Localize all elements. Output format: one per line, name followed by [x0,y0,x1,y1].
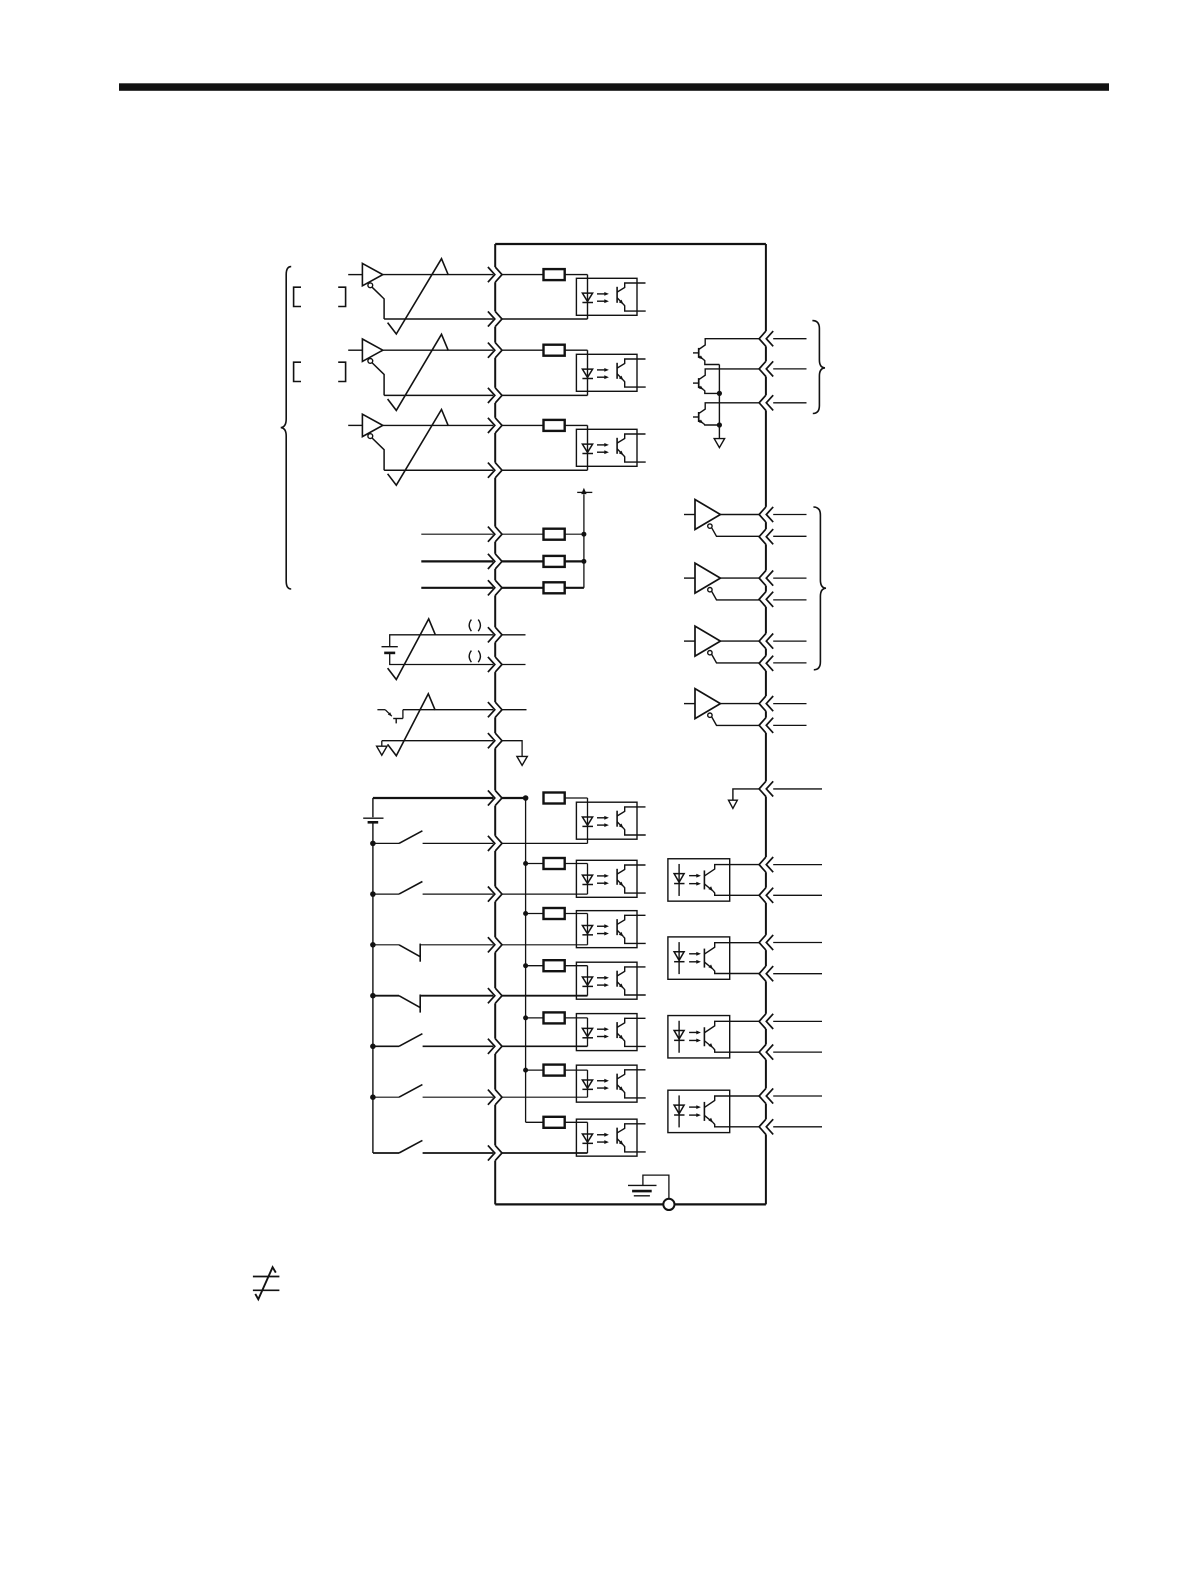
connector CN1 pin chevron row 5 [488,418,502,433]
photocoupler PC14 [668,1090,760,1132]
wire R1 to PC1 anode [565,274,588,276]
wire R3 to PC3 anode [565,424,588,426]
+24V distribution line [525,798,527,1122]
wire SIGN comp to CN1 [384,394,493,396]
resistor R11 [544,1012,565,1023]
U4 true output wire [720,514,759,516]
photocoupler PC3 [576,429,645,466]
connector CN2 cable line (right, with breaks) [765,244,767,1204]
connector CN1 pin chevron row 1 [488,267,502,282]
wire CN2 drv2 true external [773,577,806,579]
connector CN2 pin chevron row 20 [759,1119,773,1134]
wire CN1 to PC6 cathode [502,944,588,946]
wire CN1 comp to PC2 cathode [502,394,588,396]
PC7 LED feed line [587,966,589,996]
line driver U2 (SIGN) [348,339,383,363]
wire CN2 drv4 comp external [773,724,806,726]
battery B2 (24V) [363,818,383,822]
photocoupler PC8 [576,1014,645,1051]
resistor R1 [544,269,565,280]
wire CN1 comp to PC3 cathode [502,469,588,471]
junction dot R9 [523,911,528,916]
wire R6 to pull-up node [565,587,584,589]
amplifier frame top wire [495,243,766,245]
page top rule [119,83,1109,91]
wire R13 to PC10 anode [565,1121,588,1123]
pin label ( ) lower [469,651,480,663]
wire CN2 PC14 collector external [773,1095,822,1097]
switch SW6 [373,1085,493,1098]
photocoupler PC9 [576,1065,645,1102]
connector CN1 pin chevron row 17 [488,937,502,952]
wire CN2 PC11 emitter external [773,894,822,896]
wire CN2 PC12 collector external [773,942,822,944]
connector CN1 pin chevron row 14 [488,790,502,805]
wire CN2 row 2 external [773,368,806,370]
connector CN2 pin chevron row 2 [759,361,773,376]
connector CN2 pin chevron row 5 [759,529,773,544]
twisted pair T4 [388,619,436,680]
wire CN1 to R1 [502,274,544,276]
earth ground symbol [628,1185,657,1195]
PC5 LED feed line [587,864,589,895]
twisted pair T1 [388,259,449,334]
amplifier frame bottom wire [495,1203,766,1205]
switch SW7 [373,1140,493,1153]
photocoupler PC6 [576,911,645,948]
connector CN1 pin chevron row 3 [488,343,502,358]
wire R4 to pull-up node [565,533,584,535]
switch SW5 [373,1034,493,1047]
resistor R7 [544,793,565,804]
photocoupler PC2 [576,354,645,391]
connector CN1 pin chevron row 9 [488,580,502,595]
signal ground GND1 [377,741,387,756]
wire feed R11 [526,1017,544,1019]
resistor R6 [544,582,565,593]
wire R9 to PC6 anode [565,913,588,915]
connector CN2 pin chevron row 3 [759,395,773,410]
Q1-Q3 common emitter line [718,365,720,439]
resistor R3 [544,420,565,431]
connector CN1 pin chevron row 20 [488,1090,502,1105]
wire CN2 drv2 comp external [773,599,806,601]
U6 inverted output wire [712,654,760,663]
wire CN1 oc stub [502,709,527,711]
resistor R8 [544,858,565,869]
junction dot R12 [523,1068,528,1073]
resistor R4 [544,529,565,540]
resistor R10 [544,960,565,971]
switch SW3 [373,944,493,962]
wire CLR comp to CN1 [384,469,493,471]
U7 inverted output wire [712,717,760,726]
wire feed R10 [526,965,544,967]
internal ground GND4 [729,800,738,808]
switch SW2 [373,882,493,895]
junction dot R8 [523,861,528,866]
connector CN2 pin chevron row 13 [759,857,773,872]
right group brace 1 [812,321,825,414]
connector CN2 pin chevron row 8 [759,634,773,649]
wire CN2 row 1 external [773,338,806,340]
connector CN1 pin chevron row 8 [488,554,502,569]
junction dot switch SW6 [370,1094,376,1100]
wire feed R9 [526,913,544,915]
wire CN2 drv3 true external [773,640,806,642]
junction dot row 7 [581,532,586,537]
wire CN1 to PC5 cathode [502,893,588,895]
resistor R9 [544,908,565,919]
resistor R13 [544,1117,565,1128]
PC6 LED feed line [587,914,589,945]
wire CN1 to R6 [502,587,544,589]
junction dot row 8 [581,559,586,564]
connector CN2 pin chevron row 15 [759,935,773,950]
U2 inverted output wire [372,363,384,396]
U6 true output wire [720,640,759,642]
pull-up bus line [583,494,585,588]
wire PULS comp to CN1 [384,318,493,320]
wire CN2 ground internal [733,789,760,800]
photocoupler PC7 [576,962,645,999]
connector CN1 cable line (left, with breaks) [494,244,496,1204]
connector CN1 pin chevron row 7 [488,527,502,542]
line driver U7 [684,689,720,719]
twisted pair T2 [388,334,449,410]
connector CN2 pin chevron row 12 [759,781,773,796]
line driver U5 [684,563,720,593]
battery B1 [382,647,398,653]
connector CN1 pin chevron row 10 [488,627,502,642]
wire PULS true to CN1 [383,274,493,276]
resistor R2 [544,345,565,356]
wire CN1 comp to PC1 cathode [502,318,588,320]
PC9 LED feed line [587,1070,589,1097]
resistor R12 [544,1065,565,1076]
twisted pair T3 [388,410,449,486]
wire B1+ to CN1 [390,635,494,647]
wire CN1 to R5 [502,560,544,562]
photocoupler PC12 [668,937,760,979]
connector CN2 pin chevron row 11 [759,718,773,733]
internal ground GND2 [517,756,527,765]
connector CN2 pin chevron row 9 [759,656,773,671]
junction dot R11 [523,1015,528,1020]
connector CN2 pin chevron row 7 [759,592,773,607]
photocoupler PC4 [576,802,645,839]
connector CN1 pin chevron row 4 [488,388,502,403]
connector CN2 pin chevron row 19 [759,1088,773,1103]
wire CN2 PC14 emitter external [773,1126,822,1128]
wire CLR true to CN1 [383,424,493,426]
line driver U1 (PULS) [348,263,383,287]
wire SIGN true to CN1 [383,349,493,351]
digital input common rail [372,822,374,1153]
connector CN2 pin chevron row 14 [759,888,773,903]
wire CN1 shield to internal ground [502,741,522,757]
junction dot switch SW3 [370,942,376,948]
wire CN1 to PC4 cathode [502,842,588,844]
connector CN2 pin chevron row 10 [759,696,773,711]
wire shield to CN1 [382,740,493,742]
line driver U3 (CLR) [348,414,383,438]
U5 inverted output wire [712,591,760,600]
resistor R5 [544,556,565,567]
legend twisted-pair symbol [253,1267,280,1299]
connector CN2 pin chevron row 1 [759,331,773,346]
junction dot Q3 emitter [717,422,722,427]
PC4 LED feed line [587,798,589,843]
pull-up supply arrow [577,488,592,494]
wire CN1 to R3 [502,424,544,426]
junction dot Q2 emitter [717,391,722,396]
junction dot switch SW5 [370,1044,376,1050]
twisted pair T5 [388,694,436,756]
wire CN2 PC13 emitter external [773,1051,822,1053]
connector CN2 pin chevron row 6 [759,571,773,586]
connector CN2 pin chevron row 16 [759,966,773,981]
wire CN2 drv4 true external [773,703,806,705]
bracket pair row 2 [294,362,346,381]
U1 inverted output wire [372,287,384,319]
frame ground connection [643,1175,669,1199]
connector CN1 pin chevron row 11 [488,657,502,672]
wire CN1 to PC7 cathode [502,995,588,997]
wire CN2 drv3 comp external [773,662,806,664]
wire CN1 to PC8 cathode [502,1045,588,1047]
wire CN1 to PC10 cathode [502,1152,588,1154]
connector CN1 pin chevron row 16 [488,887,502,902]
frame ground terminal [663,1199,674,1210]
wire CN1 to PC9 cathode [502,1096,588,1098]
wire CN2 drv1 comp external [773,535,806,537]
photocoupler PC5 [576,860,645,897]
wire CN1 common to pull-up node [502,797,526,799]
wire CN2 PC11 collector external [773,864,822,866]
pin label ( ) upper [469,620,480,632]
wire CN1 to R4 [502,533,544,535]
U4 inverted output wire [712,528,760,537]
transistor Q1 [693,339,759,365]
U5 true output wire [720,577,759,579]
wire CN2 ground external [773,788,822,790]
junction dot switch SW4 [370,993,376,999]
wire CN1 analog- stub [502,664,526,666]
U3 inverted output wire [372,438,384,470]
wire R7 to PC4 anode [565,797,588,799]
wire CN2 row 3 external [773,402,806,404]
PC10 LED feed line [587,1122,589,1153]
connector CN2 pin chevron row 17 [759,1014,773,1029]
wire R8 to PC5 anode [565,863,588,865]
junction dot R10 [523,963,528,968]
connector CN1 pin chevron row 12 [488,702,502,717]
junction dot switch SW2 [370,891,376,897]
photocoupler PC1 [576,278,645,315]
wire open-collector to CN1 [403,709,493,711]
PC2 LED feed line [587,350,589,395]
wire input row 5 to CN1 [421,560,493,562]
junction dot common [523,795,529,801]
connector CN2 pin chevron row 4 [759,507,773,522]
connector CN1 pin chevron row 19 [488,1039,502,1054]
left group brace [281,267,291,589]
wire CN2 drv1 true external [773,514,806,516]
wire CN1 to R2 [502,349,544,351]
junction dot switch SW1 [370,841,376,847]
wire B1- to CN1 [390,653,494,665]
photocoupler PC11 [668,859,760,901]
wire CN1 analog+ stub [502,634,526,636]
connector CN1 pin chevron row 15 [488,836,502,851]
transistor Q3 [693,403,759,425]
wire CN2 PC12 emitter external [773,973,822,975]
connector CN1 pin chevron row 21 [488,1145,502,1160]
connector CN2 pin chevron row 18 [759,1045,773,1060]
wire input row 4 to CN1 [421,533,493,535]
bracket pair row 1 [294,287,346,306]
wire feed R13 [526,1121,544,1123]
PC1 LED feed line [587,275,589,319]
wire +24V common to CN1 [373,798,493,817]
wire R10 to PC7 anode [565,965,588,967]
switch SW1 [373,831,493,844]
connector CN1 pin chevron row 6 [488,463,502,478]
wire R11 to PC8 anode [565,1017,588,1019]
right group brace 2 [813,507,826,670]
PC8 LED feed line [587,1018,589,1046]
wire feed R8 [526,863,544,865]
U7 true output wire [720,703,759,705]
wire R5 to pull-up node [565,560,584,562]
switch SW4 [373,995,493,1013]
wire CN2 PC13 collector external [773,1020,822,1022]
connector CN1 pin chevron row 13 [488,733,502,748]
open-collector source symbol [377,710,403,724]
wire input row 6 to CN1 [421,587,493,589]
photocoupler PC10 [576,1119,645,1156]
PC3 LED feed line [587,425,589,470]
line driver U6 [684,626,720,656]
wire R2 to PC2 anode [565,349,588,351]
ground GND3 [714,439,724,448]
wire R12 to PC9 anode [565,1069,588,1071]
transistor Q2 [693,369,759,394]
photocoupler PC13 [668,1016,760,1058]
line driver U4 [684,500,720,530]
connector CN1 pin chevron row 18 [488,988,502,1003]
wire feed R12 [526,1069,544,1071]
connector CN1 pin chevron row 2 [488,311,502,326]
